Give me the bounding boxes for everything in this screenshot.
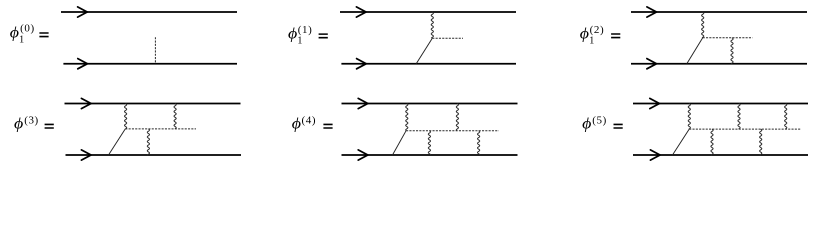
diagram 5 dashed interaction line	[406, 130, 499, 132]
svg-text:(3): (3)	[24, 115, 39, 127]
svg-text:(2): (2)	[590, 24, 605, 36]
diagram 5 top fermion line	[342, 103, 518, 105]
diagram 6 wavy photon 3 top	[785, 104, 787, 130]
diagram 5 bottom fermion line	[342, 154, 518, 156]
arrowhead on diagram 3 top fermion line	[647, 7, 657, 17]
diagram 6 wavy photon 1 bottom	[711, 129, 713, 155]
diagram 6 wavy photon 2 top	[738, 104, 740, 130]
arrowhead on diagram 3 bottom fermion line	[647, 59, 657, 69]
diagram 4 wavy photon 1 top	[125, 104, 127, 129]
diagram 4 wavy photon bottom	[147, 129, 149, 155]
svg-text:ϕ: ϕ	[288, 25, 298, 43]
svg-text:(5): (5)	[592, 115, 607, 127]
svg-text:(1): (1)	[298, 24, 313, 36]
svg-text:1: 1	[589, 35, 594, 46]
diagram 5 wavy photon 2 top	[456, 104, 458, 131]
diagram 5 wavy photon 1 top	[406, 104, 408, 131]
arrowhead on diagram 4 bottom fermion line	[81, 150, 91, 160]
diagram 5 wavy photon 2 bottom	[478, 131, 480, 155]
arrowhead on diagram 2 top fermion line	[356, 7, 366, 17]
svg-text:ϕ: ϕ	[14, 115, 24, 133]
diagram 3 bottom fermion line	[631, 63, 807, 65]
svg-text:ϕ: ϕ	[582, 115, 592, 133]
svg-text:ϕ: ϕ	[580, 24, 590, 42]
arrowhead on diagram 2 bottom fermion line	[357, 59, 367, 69]
arrowhead on diagram 5 bottom fermion line	[358, 150, 368, 160]
arrowhead on diagram 6 bottom fermion line	[650, 150, 660, 160]
arrowhead on diagram 1 top fermion line	[78, 7, 88, 17]
diagram 5 diagonal fermion segment	[393, 131, 407, 155]
diagram 5 wavy photon 1 bottom	[428, 131, 430, 155]
diagram 3 wavy photon line bottom	[731, 38, 733, 64]
diagram 6 diagonal fermion segment	[673, 129, 690, 155]
diagram 3 top fermion line	[631, 11, 807, 13]
diagram 2 dashed interaction line	[432, 37, 463, 39]
svg-text:ϕ: ϕ	[10, 23, 20, 41]
diagram 4 top fermion line	[65, 103, 241, 105]
diagram 3 diagonal fermion segment	[687, 38, 703, 64]
svg-text:1: 1	[297, 36, 302, 47]
arrowhead on diagram 1 bottom fermion line	[78, 59, 88, 69]
diagram 1 dashed stub on bottom line	[154, 37, 156, 64]
diagram 4 bottom fermion line	[66, 154, 242, 156]
diagram 4 diagonal fermion segment	[109, 129, 126, 155]
diagram 3 wavy photon line top	[702, 12, 704, 38]
svg-text:ϕ: ϕ	[292, 115, 302, 133]
diagram 6 wavy photon 2 bottom	[760, 129, 762, 155]
diagram 3 dashed interaction line	[703, 37, 753, 39]
arrowhead on diagram 6 top fermion line	[650, 98, 660, 108]
arrowhead on diagram 4 top fermion line	[81, 98, 91, 108]
svg-text:1: 1	[19, 34, 24, 45]
svg-text:(0): (0)	[20, 23, 35, 35]
diagram 6 wavy photon 1 top	[688, 104, 690, 130]
diagram 2 bottom fermion line	[341, 63, 516, 65]
diagram 4 wavy photon 2 top	[174, 104, 176, 129]
diagram 1 bottom fermion line	[63, 63, 237, 65]
diagram 1 top fermion line	[61, 11, 237, 13]
svg-text:(4): (4)	[302, 115, 317, 127]
diagram 6 top fermion line	[633, 103, 808, 105]
diagram 2 wavy photon line top	[431, 12, 433, 38]
diagram 2 diagonal fermion segment	[416, 38, 432, 64]
arrowhead on diagram 5 top fermion line	[358, 98, 368, 108]
diagram 6 dashed interaction line	[689, 128, 801, 130]
diagram 6 bottom fermion line	[633, 154, 808, 156]
diagram 4 dashed interaction line	[125, 128, 196, 130]
diagram 2 top fermion line	[340, 11, 516, 13]
